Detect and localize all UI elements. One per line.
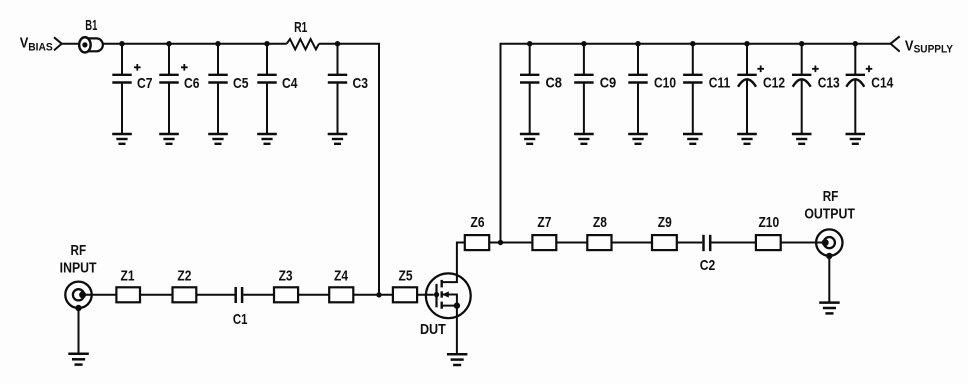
svg-text:INPUT: INPUT — [60, 259, 97, 275]
svg-text:C3: C3 — [353, 75, 369, 91]
svg-text:Z1: Z1 — [120, 267, 134, 284]
svg-text:R1: R1 — [294, 18, 307, 35]
svg-text:Z2: Z2 — [177, 267, 191, 284]
svg-text:C13: C13 — [818, 74, 840, 91]
svg-text:C2: C2 — [700, 257, 716, 273]
svg-text:B1: B1 — [85, 17, 97, 34]
svg-text:C1: C1 — [233, 310, 248, 327]
svg-text:C6: C6 — [184, 75, 200, 91]
svg-text:Z10: Z10 — [758, 214, 779, 231]
svg-text:C8: C8 — [546, 73, 563, 90]
svg-text:Z6: Z6 — [470, 214, 484, 231]
svg-text:RF: RF — [71, 242, 87, 259]
svg-text:C10: C10 — [654, 74, 676, 91]
svg-text:C4: C4 — [282, 75, 298, 91]
svg-text:C12: C12 — [763, 74, 785, 91]
svg-text:C9: C9 — [600, 73, 617, 90]
svg-text:Z7: Z7 — [537, 214, 551, 231]
svg-text:BIAS: BIAS — [28, 43, 53, 54]
svg-text:Z3: Z3 — [279, 267, 293, 284]
svg-text:DUT: DUT — [420, 320, 446, 337]
svg-text:Z9: Z9 — [658, 214, 672, 231]
svg-text:C5: C5 — [233, 75, 249, 91]
svg-text:SUPPLY: SUPPLY — [914, 44, 953, 55]
svg-text:OUTPUT: OUTPUT — [804, 205, 855, 221]
svg-text:C11: C11 — [709, 74, 731, 91]
svg-text:C14: C14 — [871, 74, 893, 91]
svg-text:RF: RF — [823, 188, 839, 205]
svg-text:Z4: Z4 — [334, 267, 348, 284]
svg-text:Z5: Z5 — [398, 267, 412, 284]
svg-text:Z8: Z8 — [593, 214, 607, 231]
svg-text:C7: C7 — [137, 75, 153, 91]
